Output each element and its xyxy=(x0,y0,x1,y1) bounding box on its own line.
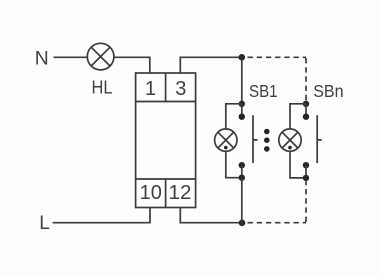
wire L to terminal 10 xyxy=(53,208,150,223)
pushbutton SBn actuator bar xyxy=(317,115,322,163)
SBn indicator lamp xyxy=(279,129,301,151)
SB1 contact stub bottom xyxy=(241,165,243,178)
SBn contact stub bottom xyxy=(305,165,307,178)
node B junction dot xyxy=(239,220,246,227)
wire SB1 lamp branch top xyxy=(226,104,242,129)
wire node A down to SB1 branch xyxy=(241,57,243,104)
wire SBn lamp branch top xyxy=(290,104,306,129)
wire SB1 branch to node B xyxy=(241,178,243,223)
node A junction dot xyxy=(239,54,246,61)
SB1 top branch node dot xyxy=(239,101,245,107)
dashed wire node B to SBn branch bottom xyxy=(248,222,307,224)
SB1 indicator lamp xyxy=(215,129,237,151)
svg-text:3: 3 xyxy=(175,78,186,100)
SBn top contact dot xyxy=(303,114,309,120)
SBn top branch node dot xyxy=(303,101,309,107)
SB1 contact stub top xyxy=(241,104,243,117)
SBn bottom branch node dot xyxy=(303,175,309,181)
svg-text:1: 1 xyxy=(145,78,156,100)
dashed wire up to SBn output xyxy=(305,181,307,222)
svg-text:12: 12 xyxy=(169,182,192,204)
svg-text:HL: HL xyxy=(92,77,113,98)
lamp HL xyxy=(87,43,114,70)
svg-text:10: 10 xyxy=(140,182,162,204)
svg-text:N: N xyxy=(35,48,49,69)
svg-text:L: L xyxy=(39,213,50,234)
dashed wire down to SBn input xyxy=(305,58,307,101)
SB1 bottom branch node dot xyxy=(239,175,245,181)
wire terminal 3 to node A xyxy=(180,57,242,73)
svg-text:SBn: SBn xyxy=(313,81,343,101)
wire HL to terminal 1 xyxy=(114,57,150,73)
SB1 bottom contact dot xyxy=(239,162,245,168)
wire SB1 lamp branch bottom xyxy=(226,151,242,177)
wire N to HL xyxy=(54,56,88,58)
wire SBn lamp branch bottom xyxy=(290,151,306,178)
wire terminal 12 to node B xyxy=(180,208,242,223)
dashed wire node A to SBn branch top xyxy=(248,56,307,58)
svg-text:SB1: SB1 xyxy=(249,81,278,101)
SBn bottom contact dot xyxy=(303,162,309,168)
relay module body xyxy=(136,73,196,208)
SB1 top contact dot xyxy=(239,114,245,120)
ellipsis dots (more buttons) xyxy=(264,129,270,152)
SBn contact stub top xyxy=(305,104,307,117)
pushbutton SB1 actuator bar xyxy=(253,115,258,163)
